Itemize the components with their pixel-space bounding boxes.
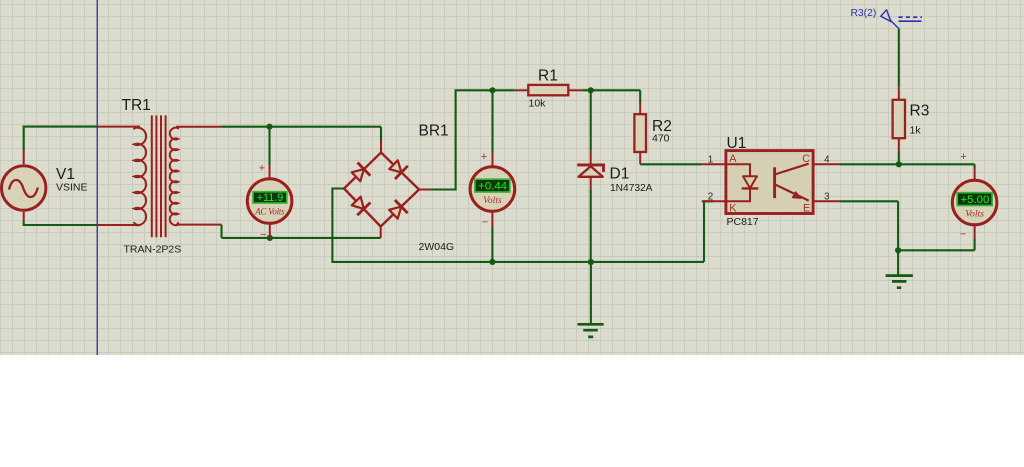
pin TR1 primary top — [24, 127, 140, 165]
ground (right) — [886, 276, 913, 288]
svg-text:PC817: PC817 — [727, 216, 759, 228]
label R1 — [538, 68, 558, 85]
AC voltmeter - sign — [260, 229, 266, 241]
transformer TR1 core — [152, 115, 166, 237]
wire rail to middle ground — [590, 262, 592, 324]
junction DC+ at voltmeter — [489, 87, 495, 93]
svg-text:E: E — [803, 202, 810, 214]
optocoupler U1 body — [726, 151, 813, 215]
pin R1 left — [515, 89, 528, 91]
junction right ground node — [895, 247, 901, 253]
junction D1/ground on rail — [588, 259, 594, 265]
ground (middle) — [578, 324, 604, 337]
pin U1.2 K — [702, 200, 726, 202]
svg-text:1N4732A: 1N4732A — [610, 183, 653, 194]
svg-text:2: 2 — [708, 192, 713, 203]
svg-text:U1: U1 — [727, 135, 747, 152]
label TRAN-2P2S — [124, 244, 182, 256]
svg-text:R3: R3 — [910, 103, 930, 120]
junction voltmeter - on rail — [489, 259, 495, 265]
label 470 — [652, 133, 670, 145]
voltage probe R3(2) — [881, 10, 922, 29]
svg-text:Volts: Volts — [483, 195, 502, 206]
AC voltmeter + sign — [259, 162, 265, 174]
resistor R2 — [634, 114, 646, 152]
+5V voltmeter - sign — [960, 229, 966, 241]
pin number 4 — [824, 155, 830, 166]
zener diode D1 — [577, 165, 603, 177]
svg-text:−: − — [482, 217, 488, 229]
pin U1.1 A — [701, 163, 726, 165]
transformer TR1 primary winding — [134, 127, 146, 226]
pin +5V voltmeter - — [974, 224, 976, 238]
pin D1 bottom — [590, 177, 592, 190]
bridge rectifier BR1 diamond — [344, 153, 419, 227]
wire voltmeter + drop — [491, 90, 493, 152]
pin U1.3 E — [813, 200, 840, 202]
svg-text:+: + — [481, 151, 487, 163]
pin AC voltmeter - — [269, 223, 271, 238]
pin R1 right — [568, 89, 581, 91]
label D1 — [610, 166, 630, 183]
label R2 — [652, 118, 672, 135]
svg-text:+5.00: +5.00 — [960, 194, 989, 206]
wire D1 cathode drop — [590, 90, 592, 151]
resistor R3 — [893, 100, 905, 138]
wire V1 top to TR1 primary top — [24, 127, 97, 151]
svg-text:10k: 10k — [529, 98, 547, 110]
svg-text:BR1: BR1 — [419, 123, 449, 140]
label BR1 — [419, 123, 449, 140]
wire TR1 secondary top to bridge top (node with AC voltmeter +) — [222, 127, 382, 141]
pin TR1 secondary top — [176, 126, 222, 128]
svg-text:D1: D1 — [610, 166, 630, 183]
DC voltmeter + sign — [481, 151, 487, 163]
pin AC voltmeter + — [269, 165, 271, 181]
wire U1 pin4 to R3 node and +5V voltmeter — [840, 164, 975, 167]
svg-text:+: + — [960, 151, 966, 163]
label 2W04G — [419, 241, 455, 253]
svg-text:−: − — [260, 229, 266, 241]
svg-text:−: − — [960, 229, 966, 241]
wire ground rail up to U1 pin2 — [704, 201, 713, 262]
svg-text:470: 470 — [652, 133, 670, 145]
resistor R1 — [528, 85, 568, 95]
label 1k — [910, 125, 922, 137]
wire R3 top to probe — [898, 29, 900, 88]
wire BR1 left corner to ground rail — [332, 189, 704, 262]
svg-text:+: + — [259, 162, 265, 174]
junction R3 bottom node — [896, 161, 902, 167]
svg-text:K: K — [729, 202, 737, 214]
junction at TR1 secondary top / voltmeter — [266, 124, 272, 130]
pin R3 bottom — [898, 138, 900, 151]
transformer TR1 secondary winding — [170, 127, 178, 225]
pin BR1 bottom — [380, 227, 382, 238]
label R3 — [910, 103, 930, 120]
wire right ground node down — [897, 250, 899, 275]
svg-text:4: 4 — [824, 155, 830, 166]
label TR1 — [122, 97, 151, 114]
svg-text:R1: R1 — [538, 68, 558, 85]
pin R2 top — [639, 103, 641, 115]
pin number 2 — [708, 192, 713, 203]
pin DC voltmeter + — [492, 153, 494, 168]
svg-text:C: C — [802, 153, 810, 165]
wire V1 bottom to TR1 primary bottom — [24, 221, 97, 225]
label 1N4732A — [610, 183, 653, 194]
pin TR1 secondary bottom — [176, 224, 222, 226]
pin DC voltmeter - — [491, 211, 493, 227]
AC voltmeter body — [247, 179, 292, 224]
pin number 1 — [708, 155, 713, 166]
BR1 diode top-left — [352, 163, 371, 182]
svg-text:VSINE: VSINE — [56, 182, 88, 194]
pin number 3 — [824, 192, 830, 203]
pin BR1 right — [419, 189, 430, 191]
wire D1 anode to ground rail — [590, 189, 592, 262]
svg-text:A: A — [729, 153, 737, 165]
wire R1 right to R2 top corner — [581, 90, 640, 102]
wire AC voltmeter + drop — [268, 127, 270, 165]
pin R3 top — [898, 87, 900, 100]
label V1 — [56, 166, 75, 183]
pin TR1 primary bottom — [24, 212, 140, 225]
BR1 diode bottom-right — [389, 200, 408, 219]
sine source V1 — [2, 166, 46, 210]
DC voltmeter body (+0.44) — [470, 167, 515, 212]
+5V voltmeter + sign — [960, 151, 966, 163]
wire U1 pin3 to right ground node — [840, 201, 898, 250]
svg-text:2W04G: 2W04G — [419, 241, 455, 253]
svg-text:V1: V1 — [56, 166, 75, 183]
wire R3 bottom node up — [898, 152, 900, 165]
+5V voltmeter body — [952, 180, 997, 225]
wire right ground node to +5V voltmeter - — [898, 239, 975, 251]
DC voltmeter - sign — [482, 217, 488, 229]
svg-text:3: 3 — [824, 192, 830, 203]
BR1 diode top-right — [389, 160, 408, 179]
svg-text:Volts: Volts — [965, 208, 984, 219]
pin +5V voltmeter + — [974, 168, 976, 182]
svg-text:R3(2): R3(2) — [851, 8, 877, 19]
svg-text:AC Volts: AC Volts — [254, 207, 285, 217]
pin U1.4 C — [813, 163, 840, 165]
label VSINE — [56, 182, 88, 194]
label 10k — [529, 98, 547, 110]
pin BR1 top — [380, 141, 382, 153]
pin R2 bottom — [639, 152, 641, 164]
wire BR1 right corner up to top rail — [430, 90, 515, 189]
svg-text:TRAN-2P2S: TRAN-2P2S — [124, 244, 182, 256]
label U1 — [727, 135, 747, 152]
junction R1/D1 node — [588, 87, 594, 93]
BR1 diode bottom-left — [352, 197, 371, 216]
svg-text:1k: 1k — [910, 125, 922, 137]
junction at AC voltmeter - — [267, 235, 273, 241]
svg-text:1: 1 — [708, 155, 713, 166]
svg-text:+11.9: +11.9 — [257, 192, 284, 204]
wire R2 bottom to U1 pin1 — [640, 163, 701, 165]
sheet border (blue vertical line) — [96, 0, 98, 355]
pin D1 top — [590, 151, 592, 165]
svg-text:TR1: TR1 — [122, 97, 151, 114]
wire TR1 secondary bottom to bridge bottom (node with AC voltmeter -) — [222, 225, 381, 238]
label R3(2) — [851, 8, 877, 19]
wire DC voltmeter - to ground rail — [491, 227, 493, 262]
label PC817 — [727, 216, 759, 228]
svg-text:+0.44: +0.44 — [478, 181, 507, 193]
